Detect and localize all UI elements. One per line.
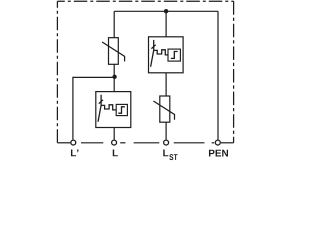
wire: spark gap U2 to varistor R2: [165, 73, 167, 96]
spark gap U2 trigger symbol: [151, 40, 181, 67]
enclosure border bottom dash between L' and L: [81, 142, 103, 144]
spark gap U2 outline box: [149, 37, 184, 73]
varistor R2 body: [160, 96, 170, 122]
terminal PEN: [215, 140, 220, 145]
varistor R2 diagonal stroke: [153, 101, 174, 120]
enclosure border bottom dash between L and L_ST: [134, 142, 160, 144]
enclosure border top side (dash-dot): [57, 0, 233, 2]
wire: junction to spark gap U2: [165, 11, 167, 37]
label L': [71, 149, 78, 156]
node: junction on top bus (L_ST tap): [164, 9, 168, 13]
label PEN: [209, 150, 228, 157]
wire: varistor R2 to L_ST terminal: [165, 122, 167, 139]
varistor R1 diagonal stroke: [102, 42, 125, 61]
enclosure border left side (dash-dot): [56, 1, 58, 143]
spark gap U1 trigger symbol: [98, 95, 127, 122]
enclosure border bottom short dash right of L: [120, 142, 125, 144]
enclosure border bottom dash between L_ST and PEN: [174, 142, 205, 144]
terminal L: [112, 140, 117, 145]
enclosure border right side (dash-dot): [233, 1, 235, 143]
label L: [113, 149, 118, 156]
enclosure border bottom short dash left of PEN: [212, 142, 215, 144]
enclosure border bottom segment: corner to L' terminal: [57, 142, 70, 144]
wire: varistor R1 to spark-gap box U1: [113, 64, 115, 91]
wire: L column from top bus down to varistor R1: [113, 11, 115, 37]
varistor R1 body: [109, 38, 119, 65]
node: junction of L column and L' branch: [112, 75, 116, 79]
wire: spark gap U1 to L terminal: [113, 128, 115, 140]
wire: top bus from L column to PEN column: [114, 10, 218, 12]
enclosure border bottom segment: PEN to right corner: [221, 142, 234, 144]
wire: L' branch (horizontal then down to L' terminal): [73, 77, 115, 139]
terminal L_ST: [164, 140, 169, 145]
terminal L': [71, 140, 76, 145]
label L_ST: [163, 149, 177, 160]
spark gap U1 outline box: [96, 92, 131, 128]
wire: PEN branch vertical: [217, 11, 219, 139]
